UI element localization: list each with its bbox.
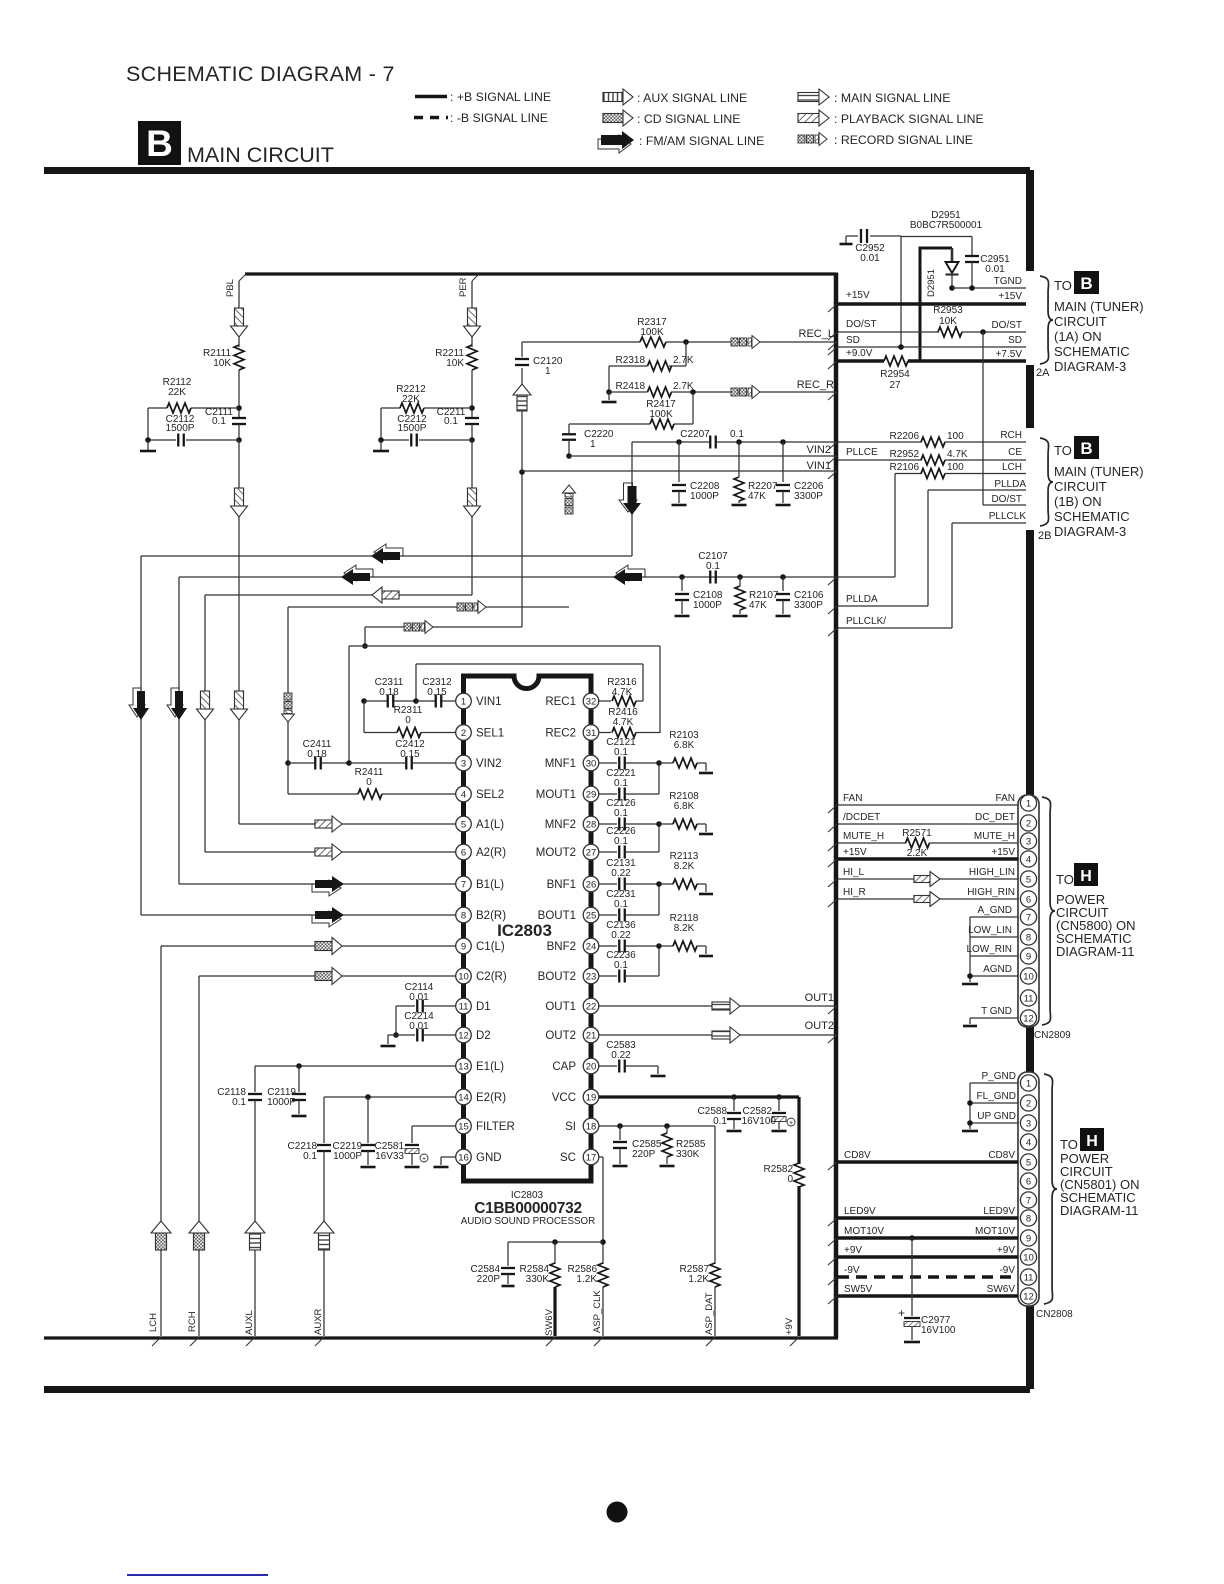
- svg-text:MAIN (TUNER): MAIN (TUNER): [1054, 299, 1144, 314]
- ground at R2108: [699, 824, 713, 834]
- svg-text:8: 8: [461, 910, 466, 921]
- svg-text:R2954: R2954: [880, 369, 910, 380]
- resistor R2585: [662, 1126, 706, 1164]
- svg-text:MAIN CIRCUIT: MAIN CIRCUIT: [187, 143, 334, 167]
- pin 6 A2(R): [456, 844, 507, 860]
- FM/AM arrow on line 577 left: [341, 565, 373, 585]
- svg-text:BNF1: BNF1: [547, 879, 576, 891]
- pin 10 C2(R): [456, 968, 507, 984]
- node AUXR label: [313, 1308, 324, 1335]
- svg-text:PLLCLK: PLLCLK: [989, 511, 1027, 522]
- CD arrow up LCH: [151, 1221, 171, 1250]
- resistor R2207: [734, 439, 778, 503]
- svg-text:MNF1: MNF1: [545, 758, 576, 770]
- svg-text:SD: SD: [1008, 335, 1022, 346]
- node RCH label: [187, 1311, 198, 1332]
- playback arrow pin6: [315, 844, 342, 860]
- wire FM line to pin7 / C2107 line: [179, 577, 895, 884]
- AUX arrow up AUXL: [245, 1221, 265, 1250]
- svg-text:4: 4: [1026, 1137, 1031, 1148]
- svg-text:19: 19: [586, 1092, 597, 1103]
- node FAN line: [828, 793, 1018, 813]
- legend AUX signal line: [603, 89, 747, 105]
- svg-text:0.18: 0.18: [307, 749, 327, 760]
- capacitor C2118 on AUXL: [217, 1066, 262, 1336]
- svg-text:+15V: +15V: [843, 847, 867, 858]
- svg-text:+9V: +9V: [784, 1317, 795, 1335]
- svg-text:4.7K: 4.7K: [612, 687, 633, 698]
- svg-text:8: 8: [1026, 1213, 1031, 1224]
- diode D2951: [910, 210, 983, 361]
- svg-text:0.18: 0.18: [379, 687, 399, 698]
- resistor R2318: [606, 342, 694, 395]
- svg-text:12: 12: [1023, 1291, 1034, 1302]
- node LED9V line: [828, 1206, 1018, 1226]
- svg-text:: RECORD SIGNAL LINE: : RECORD SIGNAL LINE: [834, 133, 973, 147]
- capacitor C2214: [388, 1011, 456, 1042]
- svg-text:D1: D1: [476, 1001, 491, 1013]
- node REC_L exit: [799, 328, 837, 350]
- node VIN1 exit: [522, 460, 837, 479]
- svg-text:5: 5: [1026, 1157, 1031, 1168]
- svg-text:R2206: R2206: [890, 431, 920, 442]
- svg-text:0.1: 0.1: [212, 416, 226, 427]
- svg-text:CE: CE: [1008, 447, 1022, 458]
- node PLLDA line: [928, 479, 1026, 490]
- svg-text:1500P: 1500P: [166, 423, 195, 434]
- capacitor C2411: [285, 739, 349, 770]
- svg-text:0.22: 0.22: [611, 930, 631, 941]
- svg-text:3300P: 3300P: [794, 600, 823, 611]
- ground at AGND: [962, 983, 978, 986]
- svg-text:A_GND: A_GND: [978, 905, 1012, 916]
- wire pin18 SI: [599, 1123, 715, 1129]
- svg-text:TO: TO: [1054, 443, 1072, 458]
- connector CN2808: [1018, 1072, 1073, 1320]
- svg-text:-9V: -9V: [844, 1265, 860, 1276]
- note TO MAIN (TUNER) CIRCUIT (1A): [1054, 271, 1144, 374]
- wire feedback link: [658, 884, 660, 915]
- svg-text:20: 20: [586, 1061, 597, 1072]
- svg-text:BNF2: BNF2: [547, 941, 576, 953]
- resistor R2582: [764, 1097, 804, 1336]
- svg-text:7: 7: [461, 879, 466, 890]
- wire PER down: [471, 440, 473, 595]
- wire playback line to pin6: [205, 595, 472, 852]
- capacitor C2412: [346, 739, 456, 770]
- FM/AM arrow down x141: [129, 688, 149, 720]
- pin 18 SI: [565, 1118, 599, 1134]
- svg-text:27: 27: [889, 380, 901, 391]
- FM/AM arrow down x632: [619, 483, 641, 515]
- svg-text:3: 3: [1026, 1118, 1031, 1129]
- svg-text:7: 7: [1026, 1195, 1031, 1206]
- +15V line to tuner: [838, 290, 1026, 304]
- svg-text:TO: TO: [1060, 1137, 1078, 1152]
- svg-text:LCH: LCH: [148, 1313, 159, 1332]
- wire loop SEL net B: [416, 664, 643, 701]
- wire pin21 OUT2: [599, 1020, 837, 1043]
- capacitor C2221: [599, 768, 659, 801]
- svg-text:LOW_RIN: LOW_RIN: [966, 944, 1012, 955]
- page border right segments: [1026, 170, 1034, 1389]
- svg-text:UP GND: UP GND: [977, 1111, 1016, 1122]
- svg-text:9: 9: [1026, 1233, 1031, 1244]
- svg-text:T GND: T GND: [981, 1006, 1012, 1017]
- pin 8 B2(R): [456, 907, 507, 923]
- capacitor C2312: [413, 677, 456, 708]
- pin 19 VCC: [552, 1089, 599, 1105]
- ground at C2977: [904, 1341, 920, 1344]
- svg-text:(1B) ON: (1B) ON: [1054, 494, 1102, 509]
- legend CD signal line: [603, 110, 740, 126]
- capacitor C2226: [599, 826, 659, 859]
- svg-text:1500P: 1500P: [398, 423, 427, 434]
- capacitor C2112: [148, 408, 239, 447]
- wire PBL down to pin5: [238, 440, 240, 824]
- node T GND line: [970, 1006, 1018, 1024]
- svg-text:E1(L): E1(L): [476, 1061, 504, 1073]
- svg-text:FAN: FAN: [996, 793, 1015, 804]
- svg-text:7: 7: [1026, 912, 1031, 923]
- svg-text:IC2803: IC2803: [497, 921, 552, 940]
- legend MAIN signal line: [798, 89, 950, 105]
- connector CN2809: [1018, 795, 1071, 1041]
- svg-text:0.1: 0.1: [730, 429, 744, 440]
- ground at C2219: [361, 1166, 376, 1169]
- svg-text:10K: 10K: [446, 358, 464, 369]
- legend RECORD signal line: [798, 133, 973, 148]
- svg-text:D2951: D2951: [926, 269, 937, 297]
- svg-text:VIN2: VIN2: [807, 444, 831, 456]
- svg-text:HIGH_LIN: HIGH_LIN: [969, 867, 1015, 878]
- svg-text:+: +: [422, 1156, 426, 1163]
- legend -B signal line: [414, 111, 548, 125]
- svg-text:3: 3: [1026, 836, 1031, 847]
- pin 8 CN2808: [1020, 1210, 1036, 1226]
- svg-text:REC1: REC1: [545, 696, 576, 708]
- svg-text:SC: SC: [560, 1152, 576, 1164]
- svg-text:100K: 100K: [640, 327, 664, 338]
- page border bottom: [44, 1386, 1030, 1393]
- wire pin17 SC: [599, 1157, 606, 1264]
- wire pin19 VCC bus: [599, 1094, 799, 1100]
- svg-text:VCC: VCC: [552, 1092, 576, 1104]
- svg-text:0.01: 0.01: [860, 253, 880, 264]
- svg-text:B1(L): B1(L): [476, 879, 504, 891]
- resistor R2111: [203, 345, 244, 417]
- svg-text:0.01: 0.01: [985, 264, 1005, 275]
- svg-text:+15V: +15V: [846, 290, 870, 301]
- wire pin7 B1(L): [179, 883, 456, 885]
- node PER: [458, 274, 479, 347]
- svg-text:6: 6: [1026, 1176, 1031, 1187]
- node TGND line: [952, 276, 1026, 291]
- svg-text:17: 17: [586, 1152, 597, 1163]
- svg-text:6: 6: [461, 847, 466, 858]
- pin 15 FILTER: [456, 1118, 515, 1134]
- svg-text:+: +: [898, 1306, 905, 1320]
- svg-text:B: B: [1080, 274, 1092, 293]
- record arrow on line 627: [404, 621, 433, 634]
- svg-text:100: 100: [947, 431, 964, 442]
- svg-text:4: 4: [1026, 854, 1031, 865]
- record arrow on REC_R: [731, 386, 760, 399]
- svg-text:1000P: 1000P: [693, 600, 722, 611]
- svg-text:18: 18: [586, 1121, 597, 1132]
- svg-text:DC_DET: DC_DET: [975, 812, 1015, 823]
- node P_GND group: [967, 1071, 1018, 1129]
- svg-text:FAN: FAN: [843, 793, 862, 804]
- FM/AM arrow down x179: [167, 688, 187, 720]
- svg-text:A2(R): A2(R): [476, 847, 506, 859]
- svg-text:0: 0: [787, 1174, 793, 1185]
- svg-text:DIAGRAM-11: DIAGRAM-11: [1060, 1203, 1139, 1218]
- pin 28 MNF2: [545, 816, 599, 832]
- svg-text:PLLCLK/: PLLCLK/: [846, 616, 886, 627]
- svg-text:A1(L): A1(L): [476, 819, 504, 831]
- svg-text:: AUX SIGNAL LINE: : AUX SIGNAL LINE: [637, 91, 747, 105]
- node DO/ST line 1B: [983, 494, 1026, 505]
- ground at C2582: [772, 1130, 787, 1133]
- capacitor C2581: [375, 1126, 456, 1165]
- svg-text:R2318: R2318: [616, 355, 646, 366]
- svg-text:6: 6: [1026, 894, 1031, 905]
- svg-text:SW5V: SW5V: [844, 1284, 873, 1295]
- wire pin6 A2(R): [205, 851, 456, 853]
- AUX arrow up AUXR: [314, 1221, 334, 1250]
- svg-text:SCHEMATIC DIAGRAM - 7: SCHEMATIC DIAGRAM - 7: [126, 62, 395, 86]
- svg-text:0.15: 0.15: [400, 749, 420, 760]
- svg-text:47K: 47K: [749, 600, 767, 611]
- record arrow on line 607: [457, 601, 486, 614]
- pin 11 D1: [456, 998, 491, 1014]
- pin 22 OUT1: [545, 998, 598, 1014]
- svg-text:MOT10V: MOT10V: [975, 1226, 1015, 1237]
- svg-text:OUT2: OUT2: [805, 1020, 834, 1032]
- node LCH label: [148, 1313, 159, 1332]
- exit ticks block 1A lines: [828, 304, 837, 369]
- resistor R2108: [656, 791, 706, 829]
- svg-text:PLLCE: PLLCE: [846, 447, 878, 458]
- svg-text:10: 10: [1023, 971, 1034, 982]
- svg-text:LED9V: LED9V: [983, 1206, 1015, 1217]
- node A_GND group: [966, 905, 1018, 982]
- svg-text:24: 24: [586, 941, 597, 952]
- exit ticks at bottom rail: [152, 1337, 799, 1346]
- pin 10 CN2808: [1020, 1249, 1036, 1265]
- capacitor C2136: [599, 920, 659, 953]
- svg-text:+15V: +15V: [991, 847, 1015, 858]
- svg-text:PLLDA: PLLDA: [846, 594, 878, 605]
- svg-text:PBL: PBL: [225, 279, 236, 297]
- svg-text:1000P: 1000P: [333, 1151, 362, 1162]
- wire pin14 E2(R) from AUXR: [324, 1094, 456, 1100]
- svg-text:14: 14: [458, 1092, 469, 1103]
- svg-text:PER: PER: [458, 277, 469, 297]
- svg-text:10: 10: [458, 971, 469, 982]
- resistor R2416: [599, 707, 660, 738]
- capacitor C2583: [599, 1040, 658, 1073]
- svg-text:27: 27: [586, 847, 597, 858]
- svg-text:8: 8: [1026, 932, 1031, 943]
- FM/AM arrow pin8: [312, 907, 344, 927]
- pin 6 CN2808: [1020, 1173, 1036, 1189]
- svg-text:0.01: 0.01: [409, 1021, 429, 1032]
- svg-text:0.01: 0.01: [409, 992, 429, 1003]
- svg-text:FILTER: FILTER: [476, 1121, 515, 1133]
- resistor R2954 on +7.5V line: [838, 348, 1026, 391]
- svg-text:SW6V: SW6V: [987, 1284, 1016, 1295]
- aux arrow up x522: [513, 384, 531, 411]
- record arrow up x569: [563, 485, 576, 514]
- svg-text:1.2K: 1.2K: [688, 1274, 709, 1285]
- ground at C2214: [381, 1035, 396, 1046]
- node PLLCLK line: [952, 511, 1026, 523]
- resistor R2418 on REC_R: [609, 381, 836, 397]
- svg-text:SEL1: SEL1: [476, 728, 504, 740]
- wire pin10 C2(R) from RCH: [199, 976, 456, 1336]
- svg-text:8.2K: 8.2K: [674, 923, 695, 934]
- brace to main tuner circuit 1B: [1038, 438, 1053, 542]
- pin 23 BOUT2: [538, 968, 599, 984]
- svg-text:SW6V: SW6V: [544, 1308, 555, 1336]
- svg-text:0.1: 0.1: [713, 1116, 727, 1127]
- svg-text:SD: SD: [846, 335, 860, 346]
- svg-text:CIRCUIT: CIRCUIT: [1054, 314, 1107, 329]
- resistor R2953: [838, 305, 1026, 337]
- svg-text:MUTE_H: MUTE_H: [974, 831, 1015, 842]
- resistor R2206 on RCH line: [838, 430, 1026, 447]
- capacitor C2207: [632, 429, 837, 450]
- svg-text:REC_R: REC_R: [797, 379, 834, 391]
- svg-text:REC2: REC2: [545, 728, 576, 740]
- svg-text:CN2808: CN2808: [1036, 1309, 1073, 1320]
- pin 7 CN2808: [1020, 1192, 1036, 1208]
- label IC2803 part number: [461, 1190, 595, 1227]
- svg-text:MOUT2: MOUT2: [536, 847, 576, 859]
- svg-text:0.1: 0.1: [614, 960, 628, 971]
- exit ticks PLLDA PLLCLK: [828, 606, 837, 636]
- resistor R2107: [735, 574, 779, 614]
- pin 6 CN2809: [1020, 891, 1036, 907]
- svg-text:30: 30: [586, 758, 597, 769]
- node DO/ST line: [846, 319, 1022, 335]
- svg-text:: FM/AM SIGNAL LINE: : FM/AM SIGNAL LINE: [639, 134, 764, 148]
- CD arrow pin10: [315, 968, 342, 985]
- node HIGH_RIN line: [828, 887, 1018, 907]
- svg-text:DO/ST: DO/ST: [991, 320, 1022, 331]
- capacitor C2588: [698, 1097, 741, 1129]
- svg-text:R2953: R2953: [933, 305, 963, 316]
- svg-text:32: 32: [586, 696, 597, 707]
- wire DO/ST to block 1B: [982, 332, 984, 505]
- capacitor C2108: [675, 574, 723, 614]
- svg-text:MNF2: MNF2: [545, 819, 576, 831]
- svg-text:1: 1: [545, 366, 551, 377]
- svg-text:ASP_CLK: ASP_CLK: [592, 1290, 603, 1333]
- pin 12 CN2808: [1020, 1288, 1036, 1304]
- pin 31 REC2: [545, 725, 598, 741]
- pin 9 CN2808: [1020, 1230, 1036, 1246]
- pin 14 E2(R): [456, 1089, 507, 1105]
- pin 7 CN2809: [1020, 909, 1036, 925]
- pin 1 VIN1: [456, 693, 502, 709]
- capacitor C2208: [672, 439, 720, 503]
- node HIGH_LIN line: [828, 867, 1018, 887]
- svg-text:C1(L): C1(L): [476, 941, 505, 953]
- pin 5 A1(L): [456, 816, 505, 832]
- svg-text:+: +: [789, 1120, 793, 1127]
- svg-text:AUXR: AUXR: [313, 1308, 324, 1335]
- svg-text:GND: GND: [476, 1152, 502, 1164]
- page border top: [44, 167, 1030, 174]
- svg-text:HI_R: HI_R: [843, 887, 866, 898]
- pin 2 SEL1: [456, 725, 504, 741]
- wire down arrow branch x632: [631, 442, 633, 556]
- svg-text:10K: 10K: [213, 358, 231, 369]
- pin 5 CN2808: [1020, 1154, 1036, 1170]
- ground at C2212: [373, 437, 389, 451]
- svg-text:16V33: 16V33: [375, 1151, 404, 1162]
- svg-text:+9V: +9V: [997, 1245, 1015, 1256]
- wire pin8 B2(R): [141, 914, 456, 916]
- resistor R2211: [435, 345, 477, 417]
- svg-text:0: 0: [405, 715, 411, 726]
- pin 4 CN2809: [1020, 851, 1036, 867]
- capacitor C2311: [361, 677, 416, 708]
- FM/AM arrow on line 556: [371, 544, 403, 564]
- resistor R2411: [288, 763, 456, 799]
- main arrow OUT1: [712, 998, 740, 1014]
- svg-text:1: 1: [1026, 798, 1031, 809]
- svg-text:1: 1: [590, 439, 596, 450]
- svg-text:0.1: 0.1: [303, 1151, 317, 1162]
- capacitor C2111: [205, 407, 246, 443]
- FM/AM arrow on line 577 right: [613, 565, 645, 585]
- svg-text:D2: D2: [476, 1030, 491, 1042]
- svg-text:SEL2: SEL2: [476, 789, 504, 801]
- ground at pin16 GND: [434, 1157, 457, 1167]
- wire C2120 branch: [519, 368, 525, 627]
- resistor R2952 on PLLCE/CE line: [838, 447, 1026, 465]
- svg-text:330K: 330K: [526, 1274, 550, 1285]
- svg-text:AGND: AGND: [983, 964, 1012, 975]
- node MOT10V line: [828, 1226, 1018, 1246]
- wire feedback link: [658, 763, 660, 794]
- resistor R2106 on LCH line: [890, 462, 1026, 479]
- svg-text:+7.5V: +7.5V: [996, 349, 1023, 360]
- svg-text:OUT1: OUT1: [545, 1001, 576, 1013]
- legend +B signal line: [415, 90, 551, 104]
- svg-text:4.7K: 4.7K: [947, 449, 968, 460]
- node AUXL label: [244, 1310, 255, 1335]
- ground at C2588: [727, 1130, 742, 1133]
- svg-text:VIN1: VIN1: [807, 460, 831, 472]
- capacitor C2585: [613, 1126, 662, 1164]
- svg-text:B: B: [1080, 439, 1092, 458]
- ground at R2318: [602, 392, 617, 402]
- svg-text:10: 10: [1023, 1252, 1034, 1263]
- svg-text:P_GND: P_GND: [982, 1071, 1016, 1082]
- svg-text:DIAGRAM-11: DIAGRAM-11: [1056, 944, 1135, 959]
- svg-text:16V100: 16V100: [742, 1116, 777, 1127]
- wire C2952 to SD: [900, 236, 902, 347]
- svg-text:28: 28: [586, 819, 597, 830]
- svg-text:8.2K: 8.2K: [674, 861, 695, 872]
- svg-text:SI: SI: [565, 1121, 576, 1133]
- svg-text:RCH: RCH: [1000, 430, 1022, 441]
